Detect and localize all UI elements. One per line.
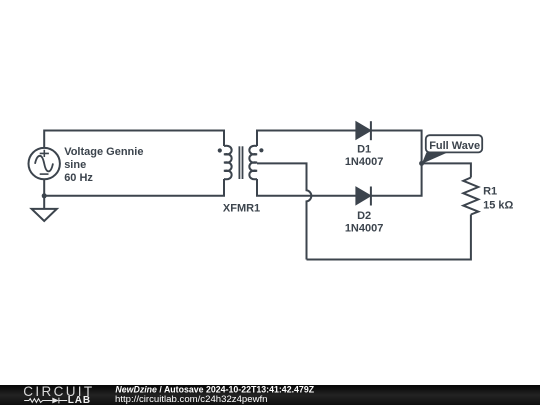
- node Full Wave junction dot: [419, 161, 424, 166]
- footer text: [115, 385, 315, 405]
- resistor R1: [463, 178, 478, 215]
- wire node Full Wave to R1 top: [422, 163, 471, 177]
- label D1 1N4007: [345, 144, 384, 169]
- ground: [32, 196, 57, 221]
- transformer core: [239, 146, 242, 179]
- wire source bottom to primary bottom: [44, 179, 224, 196]
- wire secondary top to D1 anode: [257, 131, 356, 147]
- svg-text:Full Wave: Full Wave: [429, 140, 480, 152]
- svg-text:Voltage Gennie: Voltage Gennie: [64, 146, 143, 158]
- svg-text:60 Hz: 60 Hz: [64, 172, 93, 184]
- svg-text:1N4007: 1N4007: [345, 156, 384, 168]
- diode D1: [356, 121, 371, 140]
- label D2 1N4007: [345, 210, 384, 235]
- svg-text:sine: sine: [64, 159, 86, 171]
- wire bottom rail to R1 bottom: [307, 215, 471, 260]
- transformer XFMR1 primary coil: [224, 146, 232, 180]
- CircuitLab logo: [23, 384, 94, 405]
- primary phasing dot: [218, 148, 222, 152]
- wire source top to primary top: [44, 131, 224, 149]
- secondary phasing dot: [259, 148, 263, 152]
- V1 labels: Voltage Gennie / sine / 60 Hz: [64, 146, 143, 184]
- svg-text:1N4007: 1N4007: [345, 223, 384, 235]
- flag Full Wave: [422, 135, 482, 164]
- junction dot at source/ground node: [42, 193, 47, 198]
- svg-text:D1: D1: [357, 144, 371, 156]
- wire D1 cathode to node Full Wave: [371, 131, 422, 164]
- svg-text:D2: D2: [357, 210, 371, 222]
- wire secondary bottom to D2 anode: [257, 179, 356, 196]
- footer bar: [0, 385, 540, 405]
- svg-text:http://circuitlab.com/c24h32z4: http://circuitlab.com/c24h32z4pewfn: [115, 394, 268, 405]
- wire center tap to bottom rail (hops over D2 wire): [257, 163, 311, 259]
- svg-text:R1: R1: [483, 186, 497, 198]
- voltage source V1: [29, 148, 60, 179]
- transformer XFMR1 secondary coil: [249, 146, 257, 180]
- label R1 15 kOhm: [483, 186, 513, 212]
- svg-text:15 kΩ: 15 kΩ: [483, 200, 513, 212]
- svg-text:LAB: LAB: [68, 395, 91, 405]
- wire D2 cathode up to node Full Wave: [371, 163, 422, 195]
- svg-text:XFMR1: XFMR1: [223, 202, 260, 214]
- diode D2: [356, 187, 371, 206]
